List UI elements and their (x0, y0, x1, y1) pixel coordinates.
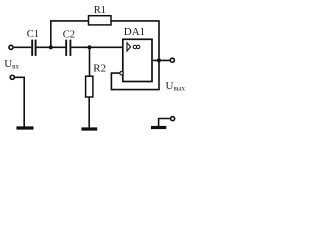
svg-text:R1: R1 (94, 5, 106, 16)
wire R1 to output node (111, 21, 159, 61)
wire input to C1 (14, 46, 31, 48)
node junction C1-C2 (49, 45, 53, 49)
wire terminal to ground bottom-left (15, 77, 24, 127)
node output (157, 58, 161, 62)
resistor R1 (89, 16, 112, 25)
capacitor C2 (66, 40, 70, 56)
wire ground to output terminal bottom-right (159, 119, 170, 127)
input terminal Uвх (9, 45, 13, 49)
op-amp infinity symbol (133, 45, 140, 48)
wire junction down to R2 (89, 47, 91, 76)
wire junction up to R1 (51, 21, 89, 47)
svg-text:DA1: DA1 (124, 26, 145, 38)
capacitor C1 (32, 40, 35, 56)
output ground terminal (171, 117, 175, 121)
svg-text:R2: R2 (93, 63, 106, 75)
inverting input bubble (120, 72, 123, 75)
feedback wire from output to inverting input (111, 60, 159, 89)
output terminal Uвых (170, 58, 174, 62)
resistor R2 (86, 76, 93, 97)
ground bottom-left (16, 126, 33, 129)
ground terminal bottom-left (10, 75, 14, 79)
op-amp DA1 (123, 39, 152, 81)
wire R2 to ground (88, 97, 90, 128)
svg-text:C1: C1 (27, 29, 39, 40)
svg-text:C2: C2 (63, 29, 75, 40)
wire op-amp output (152, 59, 170, 61)
ground bottom-right (151, 126, 166, 129)
wire C1 to C2 (37, 46, 66, 48)
op-amp triangle symbol (127, 43, 131, 51)
wire C2 to op-amp input (71, 46, 123, 48)
node junction R2 (87, 45, 91, 49)
ground under R2 (81, 127, 97, 130)
